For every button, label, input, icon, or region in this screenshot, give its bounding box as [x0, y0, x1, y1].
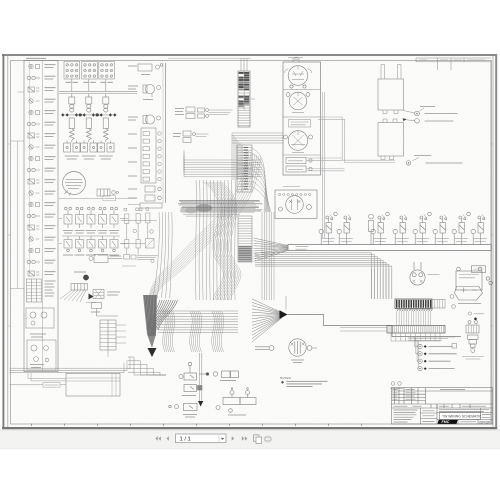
junction arrow: [89, 294, 94, 300]
title block small text: [393, 390, 492, 423]
revision strip top right: [416, 58, 491, 70]
relay R5 pair: [216, 388, 256, 413]
first-page button: [155, 436, 161, 440]
resistor box RB2: [378, 123, 404, 157]
CL1 stub wires: [86, 303, 126, 358]
dome lamp L1: [63, 172, 86, 196]
frame stub wires at left: [11, 92, 25, 289]
lower sender units: [140, 186, 162, 208]
next-page button: [232, 436, 235, 440]
rocker switch SW6: [64, 236, 72, 252]
harness arrow: [148, 348, 157, 357]
oil pressure sender: [138, 64, 163, 71]
remote start switch: [466, 321, 479, 353]
svg-text:TW WIRING SCHEMATIC: TW WIRING SCHEMATIC: [442, 415, 482, 419]
ground bus bar BB1: [288, 245, 491, 251]
rocker switch SW7: [76, 236, 84, 252]
wire run relay bank to center: [196, 110, 233, 137]
RB1 feed risers: [381, 65, 401, 80]
center vertical wire field: [153, 180, 235, 300]
terminal T3: [406, 161, 411, 166]
turn signal harness fan: [60, 290, 86, 302]
indicator lamp DS5: [413, 212, 431, 244]
positive battery terminal: [468, 312, 471, 315]
horn feed bus runs: [307, 158, 345, 171]
resistor box RB1: [378, 79, 404, 110]
top feeder line: [168, 57, 251, 59]
last-page button: [242, 436, 248, 440]
indicator lamp DS4: [393, 215, 407, 245]
BB2 drop wires: [391, 333, 440, 341]
frame zone ticks sides: [9, 144, 493, 326]
jumper wire to battery area: [288, 315, 462, 337]
dense horizontal band: [179, 202, 263, 217]
terminal T1: [415, 111, 420, 116]
J1 fuse ladder sub-block: [27, 279, 42, 302]
inner drawing frame: [11, 61, 492, 425]
terminal T2: [415, 119, 420, 124]
bus bar feed fan: [254, 238, 289, 261]
rocker switch SW9: [99, 236, 107, 252]
bundle feed curves: [147, 300, 178, 330]
indicator lamp DS3: [371, 212, 389, 244]
indicator lamp DS8: [471, 215, 485, 245]
gauge label box: [289, 120, 311, 128]
fuel gauge G3: [284, 131, 313, 151]
junction arrowhead: [280, 310, 288, 318]
prev-page button: [166, 436, 169, 440]
svg-text:1 / 1: 1 / 1: [180, 437, 191, 443]
harness fan to junction: [252, 299, 286, 342]
rocker switch SW4: [99, 207, 107, 228]
harness corner bus from gauges: [232, 133, 283, 180]
comb-to-bus drop wires: [397, 311, 431, 326]
rocker switch SW2: [76, 207, 84, 228]
rocker switch SW8: [87, 236, 95, 252]
connector grid CN1: [64, 62, 80, 80]
circled note markers: [450, 295, 455, 309]
accessory relay K0: [97, 189, 118, 196]
speedometer G1: [285, 66, 312, 88]
rocker switch SW5: [110, 207, 118, 228]
terminal labels: [414, 107, 463, 164]
spare terminal pair: [391, 382, 401, 386]
panel feed stubs: [288, 58, 303, 63]
svg-text:FMC: FMC: [442, 420, 450, 424]
main harness bundle (dark): [143, 295, 157, 348]
hour meter M1: [255, 339, 317, 356]
panel divider line: [59, 197, 137, 199]
lower S-drop curves: [163, 311, 224, 352]
harness runs below bus bar: [255, 253, 392, 299]
J1 lower connector block: [26, 308, 56, 370]
feeder pair to relays: [200, 353, 202, 403]
water temp sender: [143, 84, 161, 97]
instrument switch group: [121, 208, 158, 263]
indicator lamp DS2: [337, 215, 351, 245]
feed bus above ignition chains: [59, 91, 137, 93]
turn signal switch: [74, 271, 86, 273]
diagonal sweep harness: [149, 150, 260, 297]
relay R4 pair: [199, 371, 239, 378]
drawing title text: [440, 413, 481, 420]
tachometer G2: [286, 92, 310, 110]
page bottom edge: [2, 427, 497, 429]
horn unit boxes: [286, 158, 312, 173]
blower motor M2: [410, 262, 425, 285]
terminal strip TB3: [238, 216, 252, 262]
terminal strip TB2: [237, 145, 252, 192]
fit-width icon (disabled): [264, 436, 271, 442]
switch row bus wires: [59, 219, 128, 244]
page right edge: [495, 54, 497, 429]
flasher F1: [93, 290, 104, 299]
frame zone ticks bottom: [32, 424, 362, 427]
TB1 feeder risers: [241, 59, 255, 100]
page combobox: [176, 434, 227, 443]
relay bank 2: [183, 131, 195, 143]
junction panel J1 (left terminal strip): [24, 61, 58, 372]
title block: [392, 388, 493, 425]
horn relay K1: [89, 255, 122, 263]
solenoid valve V1: [369, 214, 374, 244]
connector grid CN3: [99, 62, 115, 80]
rocker switch SW1: [64, 207, 72, 228]
terminal comb strip (dark): [395, 299, 432, 309]
terminal lead wires: [404, 111, 415, 121]
indicator lamp DS6: [433, 215, 447, 245]
ignition switch chain S2: [81, 94, 97, 152]
terminal comb strip (light): [432, 300, 445, 309]
ladder connector CL1: [100, 320, 116, 350]
sender terminal box: [141, 128, 156, 183]
indicator lamp DS1: [319, 212, 337, 244]
harness bus L-run: [318, 117, 395, 163]
relay bank left of TB1: [186, 107, 208, 119]
fit-page icon: [254, 435, 262, 444]
indicator lamp DS7: [452, 212, 470, 244]
ammeter G5 box: [275, 190, 317, 219]
junction box JB2: [66, 374, 120, 397]
relay R3: [169, 404, 197, 411]
terminal strip TB1 (dark): [238, 71, 250, 127]
gauge feed bus column: [165, 63, 167, 203]
svg-text:SCH 128: SCH 128: [479, 421, 490, 425]
page top edge: [2, 54, 497, 56]
rocker switch SW10: [110, 236, 118, 252]
starter bus bar BB2: [387, 326, 445, 334]
harness bus vertical: [322, 92, 324, 238]
ignition switch chain S1: [64, 94, 80, 152]
fuse block FB1: [456, 266, 492, 290]
bottom harness loop wires: [10, 368, 131, 385]
right vertical drop lines: [262, 212, 274, 300]
stair-step wires: [128, 357, 166, 375]
rocker switch SW3: [87, 207, 95, 228]
extra comb drop wires: [372, 268, 392, 299]
terminal rows of J1: [27, 62, 40, 276]
J1 label text column: [26, 58, 56, 274]
lower horizontal bundle: [158, 311, 238, 333]
fuel sender: [143, 115, 161, 124]
battery symbol BT1: [455, 287, 483, 301]
harness label: [43, 383, 60, 388]
relay R1: [179, 362, 197, 380]
ignition switch chain S3: [98, 94, 114, 152]
upper wire bundle: [184, 150, 262, 177]
center S-curve harness: [204, 182, 241, 300]
dimmer switch: [92, 303, 119, 317]
scanned page background: [4, 56, 495, 427]
page left edge: [3, 54, 5, 429]
FMC logo: [438, 420, 458, 424]
instrument panel enclosure: [283, 62, 321, 175]
terminal list feed corners: [408, 337, 455, 369]
relay R2: [184, 385, 202, 392]
connector grid CN2: [82, 62, 98, 80]
lamp terminal list: [418, 344, 422, 371]
svg-text:NOTES:: NOTES:: [280, 376, 292, 380]
TB2 fan-out curves: [252, 148, 271, 212]
